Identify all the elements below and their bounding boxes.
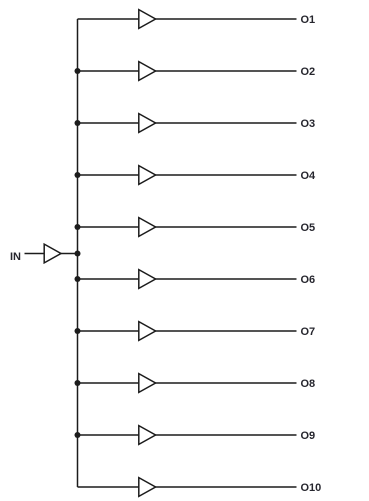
buffer U6 (139, 270, 156, 289)
wire: bus to buffer U5 input (78, 226, 139, 228)
buffer U4 (139, 166, 156, 185)
wire: bus to buffer U4 input (78, 174, 139, 176)
buffer U5 (139, 218, 156, 237)
junction dot at bus row 8 (75, 380, 81, 386)
wire: bus to buffer U1 input (78, 18, 139, 20)
wire: buffer U7 output to O7 (156, 330, 297, 332)
svg-text:O4: O4 (301, 170, 317, 182)
wire: bus to buffer U3 input (78, 122, 139, 124)
wire: buffer U1 output to O1 (156, 18, 297, 20)
wire: buffer U6 output to O6 (156, 278, 297, 280)
wire: buffer U2 output to O2 (156, 70, 297, 72)
buffer U7 (139, 322, 156, 341)
wire: bus to buffer U9 input (78, 434, 139, 436)
wire: buffer U10 output to O10 (156, 486, 297, 488)
svg-text:O7: O7 (301, 326, 316, 338)
svg-text:O10: O10 (301, 482, 322, 494)
wire: bus to buffer U10 input (78, 486, 139, 488)
wire: buffer U9 output to O9 (156, 434, 297, 436)
wire: bus to buffer U6 input (78, 278, 139, 280)
buffer U9 (139, 426, 156, 445)
junction dot at bus row 9 (75, 432, 81, 438)
junction dot: input joins bus (75, 251, 81, 257)
buffer U1 (139, 10, 156, 29)
buffer U3 (139, 114, 156, 133)
wire: bus to buffer U8 input (78, 382, 139, 384)
junction dot at bus row 5 (75, 224, 81, 230)
svg-text:O2: O2 (301, 66, 316, 78)
buffer U2 (139, 62, 156, 81)
wire: bus to buffer U2 input (78, 70, 139, 72)
wire: IN to input buffer U0 (25, 253, 45, 255)
junction dot at bus row 7 (75, 328, 81, 334)
wire: vertical bus (77, 19, 79, 487)
wire: buffer U4 output to O4 (156, 174, 297, 176)
wire: buffer U3 output to O3 (156, 122, 297, 124)
buffer U10 (139, 478, 156, 497)
wire: buffer U5 output to O5 (156, 226, 297, 228)
svg-text:IN: IN (10, 251, 21, 263)
svg-text:O5: O5 (301, 222, 316, 234)
svg-text:O3: O3 (301, 118, 316, 130)
junction dot at bus row 4 (75, 172, 81, 178)
junction dot at bus row 3 (75, 120, 81, 126)
junction dot at bus row 2 (75, 68, 81, 74)
buffer U8 (139, 374, 156, 393)
svg-text:O6: O6 (301, 274, 316, 286)
wire: bus to buffer U7 input (78, 330, 139, 332)
svg-text:O9: O9 (301, 430, 316, 442)
svg-text:O1: O1 (301, 14, 316, 26)
buffer U0 (input) (44, 244, 61, 263)
wire: input buffer U0 output to bus (61, 253, 78, 255)
wire: buffer U8 output to O8 (156, 382, 297, 384)
junction dot at bus row 6 (75, 276, 81, 282)
svg-text:O8: O8 (301, 378, 316, 390)
